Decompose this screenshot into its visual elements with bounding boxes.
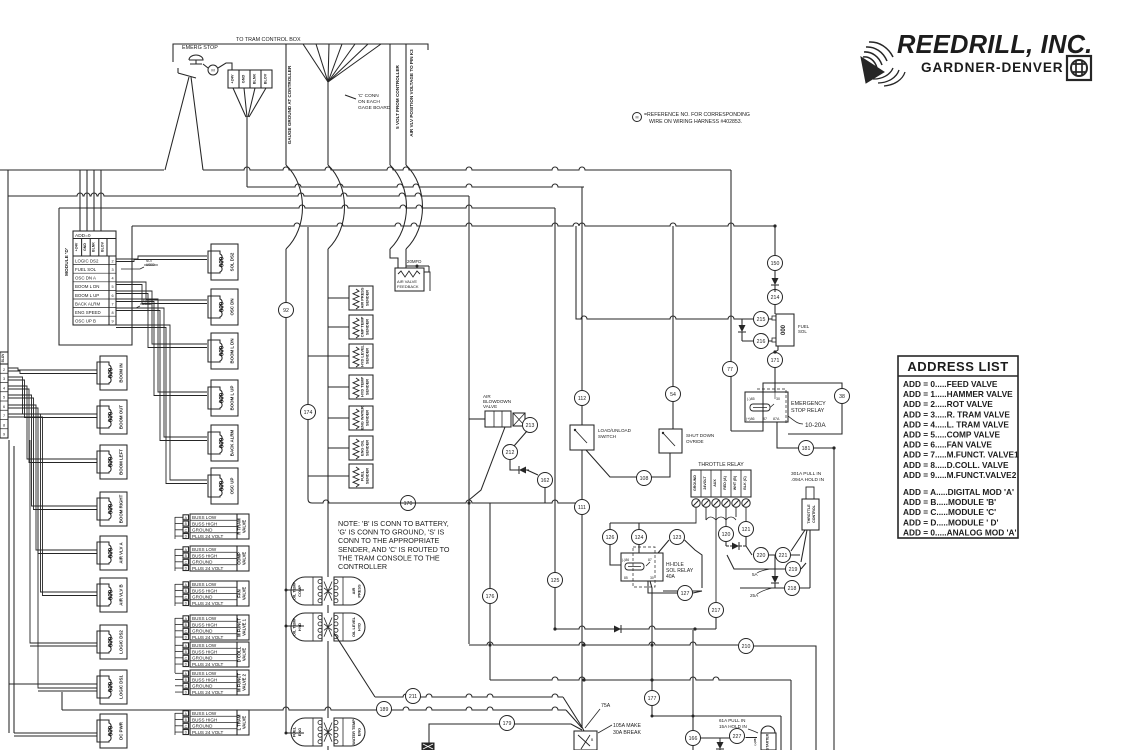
svg-text:ADD = D.....MODULE ' D': ADD = D.....MODULE ' D' (903, 517, 998, 527)
wire 127 (648, 581, 702, 593)
wire gauge to 211 line (334, 633, 375, 697)
svg-text:GND: GND (242, 75, 246, 84)
svg-text:OSC UP B: OSC UP B (75, 319, 96, 324)
svg-text:54: 54 (670, 392, 676, 398)
svg-text:3: 3 (111, 268, 113, 272)
svg-text:174: 174 (304, 410, 313, 416)
bus H5 corner down at 775 (774, 226, 776, 256)
svg-text:FEEDBACK: FEEDBACK (397, 284, 419, 289)
terminal group D COLL VALVE (190, 642, 237, 667)
svg-text:RED (A): RED (A) (723, 475, 727, 489)
svg-text:38: 38 (839, 394, 845, 400)
svg-text:87A: 87A (773, 417, 780, 421)
circled 218 (785, 581, 800, 596)
wire 77 vertical (730, 230, 732, 431)
svg-text:213: 213 (526, 423, 535, 429)
bus y645 (469, 642, 738, 645)
svg-text:000: 000 (108, 547, 115, 558)
svg-text:ADD = 8.....D.COLL. VALVE: ADD = 8.....D.COLL. VALVE (903, 460, 1009, 470)
throttle relay wires down (610, 507, 746, 602)
svg-text:.094A HOLD IN: .094A HOLD IN (791, 477, 825, 483)
solenoid LOGIC DS2 (100, 625, 127, 659)
svg-text:BOOM L UP: BOOM L UP (75, 293, 99, 298)
svg-text:ADD = C.....MODULE 'C': ADD = C.....MODULE 'C' (903, 507, 996, 517)
svg-text:WATER TEMP: WATER TEMP (351, 719, 356, 745)
circled 210 (739, 639, 754, 654)
svg-text:+24V: +24V (75, 242, 79, 251)
svg-text:BOOM L UP: BOOM L UP (230, 386, 235, 411)
svg-text:BUSS LOW: BUSS LOW (192, 671, 217, 676)
wire 218 line 25A (740, 585, 810, 588)
svg-text:176: 176 (486, 594, 495, 600)
svg-text:6: 6 (111, 294, 113, 298)
svg-text:SENDER: SENDER (365, 348, 370, 364)
svg-text:BUSS LOW: BUSS LOW (192, 616, 217, 621)
svg-text:BUSS HIGH: BUSS HIGH (192, 649, 217, 654)
svg-text:SHUT DOWN: SHUT DOWN (686, 433, 714, 438)
svg-text:PLUS 24 VOLT: PLUS 24 VOLT (192, 690, 224, 695)
svg-text:OIL TEMP: OIL TEMP (292, 617, 297, 636)
svg-text:EMERG STOP: EMERG STOP (182, 45, 218, 51)
starter solenoid wires (700, 737, 757, 740)
svg-text:20MFD: 20MFD (407, 259, 421, 264)
throttle control fan wires (791, 530, 810, 588)
throttle control actuator (802, 499, 819, 530)
terminal group L TRAM VALVE (190, 710, 237, 735)
arc bulge air vlv crossing (406, 165, 423, 249)
svg-text:111: 111 (578, 505, 586, 511)
circled 211 (406, 689, 421, 704)
svg-text:ADD = 5.....COMP VALVE: ADD = 5.....COMP VALVE (903, 430, 1001, 440)
svg-text:30A BREAK: 30A BREAK (613, 730, 642, 736)
svg-text:GROUND: GROUND (192, 724, 213, 729)
REEDRILL logo swoosh (863, 42, 893, 68)
circled 77 (723, 362, 738, 377)
svg-text:000: 000 (108, 681, 115, 692)
gage board fan wires (303, 44, 328, 82)
left edge vertical x8 from H1 to left module (7, 170, 9, 352)
svg-text:301A PULL IN: 301A PULL IN (791, 471, 822, 477)
svg-text:105A MAKE: 105A MAKE (613, 723, 642, 729)
junction dot 652-716 (651, 715, 654, 718)
bus H1 corner down at 731 (730, 170, 732, 230)
svg-text:ADD = 3.....R. TRAM VALVE: ADD = 3.....R. TRAM VALVE (903, 409, 1010, 419)
solenoid BOOM RIGHT (100, 492, 127, 526)
svg-text:108: 108 (640, 476, 649, 482)
wire fuel sol to 171 to relay (775, 346, 778, 392)
svg-text:SOL DS2: SOL DS2 (230, 252, 235, 271)
tram connector block +24V GND BLNK BLOV (228, 70, 272, 88)
emergency stop relay dashed (757, 389, 786, 424)
svg-text:GROUND: GROUND (192, 528, 213, 533)
svg-text:000: 000 (108, 636, 115, 647)
wire right edge starter box (790, 680, 792, 750)
wire 87A to 181 (777, 422, 798, 448)
address list box (898, 356, 1018, 538)
svg-text:VALVE: VALVE (242, 587, 247, 601)
svg-text:STOP RELAY: STOP RELAY (791, 408, 825, 414)
terminal group R TRAM VALVE (190, 514, 237, 539)
svg-text:BOOM LEFT: BOOM LEFT (119, 449, 124, 475)
svg-text:000: 000 (219, 480, 226, 491)
circled 215 (754, 312, 769, 327)
gauge centre wire (327, 605, 329, 750)
solenoid LOGIC DS1 (100, 670, 127, 704)
svg-text:2: 2 (111, 259, 113, 263)
diode on y629 (612, 625, 624, 633)
svg-text:SENDER: SENDER (365, 468, 370, 484)
svg-text:SENDER: SENDER (365, 319, 370, 335)
svg-text:BUSS HIGH: BUSS HIGH (192, 521, 217, 526)
sender HYD TEMP (349, 375, 373, 399)
wire gauge ground vertical (285, 44, 287, 165)
svg-text:7: 7 (3, 414, 5, 418)
throttle relay terminal strip (691, 470, 751, 497)
svg-text:THROTTLE RELAY: THROTTLE RELAY (698, 462, 744, 468)
wire connector node down (246, 117, 248, 187)
wire air vlv position vertical (405, 44, 407, 165)
svg-text:77: 77 (727, 367, 733, 373)
emergency stop mushroom button (189, 55, 203, 64)
wire 213 to 212 (514, 431, 527, 446)
svg-text:DC PWR: DC PWR (119, 721, 124, 740)
breaker 105A (574, 731, 597, 750)
svg-text:150: 150 (771, 261, 780, 267)
wire 219 line 5A (727, 555, 806, 569)
svg-text:PLUS 24 VOLT: PLUS 24 VOLT (192, 601, 224, 606)
arc bulge gauge ground crossing (286, 165, 303, 249)
circled 216 (754, 334, 769, 349)
svg-text:SOL: SOL (798, 329, 807, 334)
svg-text:+24V: +24V (231, 74, 235, 83)
wire 5 volt vertical (389, 44, 391, 165)
reference note circle (633, 113, 642, 122)
svg-text:166: 166 (689, 736, 698, 742)
solenoid BOOM LEFT (100, 445, 127, 479)
circled 121 (739, 522, 754, 537)
air blowdown wires (469, 418, 485, 420)
solenoid BACK ALRM (211, 425, 238, 461)
bus y716 starter top (652, 716, 781, 750)
wire gage fan down (327, 82, 329, 165)
wire logic ds1 feed (9, 683, 97, 685)
module D table (73, 231, 116, 325)
svg-text:ADD=0: ADD=0 (75, 233, 91, 239)
svg-text:GROUND: GROUND (693, 475, 697, 491)
bus 179 line (429, 724, 500, 744)
solenoid AIR VLV B (100, 578, 127, 612)
svg-text:75A: 75A (601, 703, 611, 709)
circled 54 (666, 387, 681, 402)
svg-text:BUSS HIGH: BUSS HIGH (192, 553, 217, 558)
solenoid AIR VLV A (100, 536, 127, 570)
junction dots lower buses (582, 643, 585, 646)
circled 176 (483, 589, 498, 604)
svg-text:VALVE: VALVE (242, 552, 247, 566)
circled 162 (538, 473, 553, 488)
svg-text:BOOM L DN: BOOM L DN (75, 284, 99, 289)
svg-text:HYD: HYD (297, 623, 302, 631)
svg-text:5 VOLT FROM CONTROLLER: 5 VOLT FROM CONTROLLER (395, 64, 400, 128)
circled 219 (786, 562, 801, 577)
svg-text:CONTROL: CONTROL (812, 504, 816, 523)
svg-text:000: 000 (108, 411, 115, 422)
svg-text:BOOM RIGHT: BOOM RIGHT (119, 494, 124, 523)
wire 214 to fuel sol (774, 288, 776, 292)
module D supply wires (79, 170, 81, 231)
diode 25A (771, 574, 779, 586)
svg-text:BLNK: BLNK (253, 73, 257, 84)
module D not-used arrows (121, 265, 158, 269)
svg-text:OVRIDE: OVRIDE (686, 439, 704, 444)
bus H4 y208 module top edge (59, 205, 555, 208)
wire 108 to shutdown (651, 453, 670, 477)
gauge pair ENG FUEL / WATER TEMP ENG (291, 718, 322, 746)
circled 127 (678, 586, 693, 601)
wire x576 fuel sol feed (576, 226, 753, 319)
svg-text:30: 30 (776, 397, 780, 401)
left bus wires (8, 440, 10, 733)
module D output wires to solenoids (116, 256, 207, 259)
svg-text:OIL LEVEL: OIL LEVEL (351, 616, 356, 637)
bus H2 y187 (247, 184, 584, 187)
svg-text:227: 227 (733, 734, 742, 740)
circled 120 (719, 527, 734, 542)
svg-text:BUSS LOW: BUSS LOW (192, 643, 217, 648)
wire 210 to right (754, 646, 816, 750)
svg-text:7: 7 (111, 302, 113, 306)
svg-text:215: 215 (757, 317, 766, 323)
arc bulge gage fan crossing (328, 165, 345, 249)
svg-text:189: 189 (380, 707, 389, 713)
capacitor 20MFD (406, 266, 429, 272)
svg-text:VALVE: VALVE (242, 520, 247, 534)
svg-text:9: 9 (3, 433, 5, 437)
solenoid SOL DS2 (211, 244, 238, 280)
svg-text:ADD = 1.....HAMMER VALVE: ADD = 1.....HAMMER VALVE (903, 389, 1013, 399)
svg-text:PLUS 24 VOLT: PLUS 24 VOLT (192, 662, 224, 667)
svg-text:VALVE: VALVE (483, 404, 497, 409)
wire x286 gauge ground down through 92 (285, 249, 287, 733)
svg-text:OSC DN: OSC DN (230, 298, 235, 315)
svg-text:GAGE BOARD: GAGE BOARD (358, 105, 391, 111)
svg-text:ENG: ENG (357, 728, 362, 736)
throttle relay screws (692, 499, 700, 507)
buss interconnect stubs (174, 517, 176, 735)
svg-text:BACK ALRM: BACK ALRM (230, 429, 235, 456)
svg-text:BUSS HIGH: BUSS HIGH (192, 717, 217, 722)
wire hi-idle to 177 vertical (650, 581, 652, 680)
left module connector (edge) (0, 352, 8, 364)
svg-text:(+)86: (+)86 (753, 738, 757, 745)
wire 5volt into feedback box (390, 249, 398, 268)
svg-text:GROUND: GROUND (192, 684, 213, 689)
svg-text:000: 000 (781, 324, 787, 335)
svg-text:LOGIC DS1: LOGIC DS1 (119, 675, 124, 699)
svg-text:GND: GND (83, 243, 87, 251)
svg-text:24VOLT: 24VOLT (703, 476, 707, 490)
wire 123 loop (658, 540, 702, 591)
diode near 162 (517, 466, 529, 474)
hi-idle sol relay box (621, 553, 663, 581)
starter 61A leader (748, 729, 758, 733)
svg-text:4: 4 (111, 277, 113, 281)
svg-text:BUSS LOW: BUSS LOW (192, 582, 217, 587)
solenoid DC PWR (100, 714, 127, 748)
svg-text:AIR: AIR (351, 587, 356, 594)
svg-text:TO TRAM CONTROL BOX: TO TRAM CONTROL BOX (236, 37, 301, 43)
svg-text:5: 5 (111, 285, 113, 289)
svg-text:000: 000 (108, 456, 115, 467)
svg-text:LOGIC DS2: LOGIC DS2 (75, 258, 99, 263)
svg-text:123: 123 (673, 535, 682, 541)
circled 214 (768, 290, 783, 305)
svg-text:BOOM IN: BOOM IN (119, 363, 124, 382)
svg-text:000: 000 (108, 503, 115, 514)
svg-text:VALVE 2: VALVE 2 (242, 673, 247, 691)
svg-text:VALVE 1: VALVE 1 (242, 618, 247, 636)
svg-text:PRESS: PRESS (357, 584, 362, 598)
sender HYD LEVEL (349, 344, 373, 368)
wire x673 down through 54 (672, 226, 674, 429)
wire fan from connector to node (233, 88, 266, 117)
svg-text:126: 126 (606, 535, 615, 541)
svg-text:ON EACH: ON EACH (358, 99, 380, 105)
svg-text:LOAD/UNLOAD: LOAD/UNLOAD (598, 428, 632, 433)
fuel sol diode branch (742, 319, 746, 341)
svg-text:000: 000 (219, 256, 226, 267)
svg-text:BLOV: BLOV (100, 241, 104, 252)
svg-text:BUSS HIGH: BUSS HIGH (192, 622, 217, 627)
tram control box bracket (173, 44, 428, 50)
svg-text:ADD = 2.....ROT VALVE: ADD = 2.....ROT VALVE (903, 399, 993, 409)
wire emerg stop to connector (203, 63, 232, 70)
svg-text:5: 5 (3, 396, 5, 400)
svg-text:USED: USED (146, 263, 156, 267)
gauge pair feeds from x286 (286, 590, 304, 733)
gardner denver square emblem (1067, 56, 1091, 80)
svg-text:ADDRESS LIST: ADDRESS LIST (907, 359, 1008, 374)
diode throttle a (730, 542, 742, 550)
svg-text:BLNK: BLNK (92, 242, 96, 252)
wire 220-221 (768, 555, 800, 575)
svg-text:MODULE 'D': MODULE 'D' (64, 248, 70, 276)
svg-text:BOOM L DN: BOOM L DN (230, 338, 235, 363)
svg-text:000: 000 (219, 301, 226, 312)
svg-text:217: 217 (712, 608, 721, 614)
node M circle (208, 65, 218, 75)
circled 171 (768, 353, 783, 368)
svg-text:HYD: HYD (357, 623, 362, 631)
svg-text:ADD = 7.....M.FUNCT. VALVE1: ADD = 7.....M.FUNCT. VALVE1 (903, 450, 1019, 460)
svg-text:(+)86: (+)86 (746, 417, 755, 421)
svg-text:BACK ALRM: BACK ALRM (75, 301, 100, 306)
svg-text:BUSS LOW: BUSS LOW (192, 515, 217, 520)
circled 108 (637, 471, 652, 486)
svg-text:PLUS 24 VOLT: PLUS 24 VOLT (192, 635, 224, 640)
svg-text:OSC UP: OSC UP (230, 478, 235, 495)
gauge pair HYD OIL TEMP / OIL LEVEL HYD (291, 613, 322, 641)
svg-text:112: 112 (578, 396, 586, 402)
svg-text:BUSS HIGH: BUSS HIGH (192, 677, 217, 682)
svg-text:8: 8 (111, 311, 113, 315)
svg-text:PLUS 24 VOLT: PLUS 24 VOLT (192, 534, 224, 539)
svg-text:2: 2 (3, 368, 5, 372)
svg-text:OSC DN A: OSC DN A (75, 276, 96, 281)
bus H3 y196 (8, 193, 469, 196)
bus H2 corner down at 582 (581, 187, 583, 425)
svg-text:FUEL SOL: FUEL SOL (75, 267, 97, 272)
svg-text:211: 211 (409, 694, 417, 700)
circled 213 (523, 418, 538, 433)
solenoid OSC UP (211, 468, 238, 504)
svg-text:SENDER: SENDER (365, 440, 370, 456)
circled 177 (645, 691, 660, 706)
circled 221 (776, 548, 791, 563)
circled 126 (603, 530, 618, 545)
svg-text:OIL TEMP: OIL TEMP (292, 581, 297, 600)
svg-text:127: 127 (681, 591, 690, 597)
bus 189 line (62, 707, 566, 710)
solenoid BOOM OUT (100, 400, 127, 434)
svg-text:181: 181 (802, 446, 811, 452)
svg-text:PLUS 24 VOLT: PLUS 24 VOLT (192, 730, 224, 735)
svg-text:VALVE: VALVE (242, 716, 247, 730)
svg-text:SENDER: SENDER (365, 379, 370, 395)
svg-text:171: 171 (771, 358, 780, 364)
emergency stop relay outer loop (731, 383, 842, 434)
svg-text:BUSS LOW: BUSS LOW (192, 711, 217, 716)
wire x328 spine down to senders and gauges (327, 249, 329, 577)
svg-text:=REFERENCE NO. FOR CORRESPONDI: =REFERENCE NO. FOR CORRESPONDING (644, 112, 750, 118)
air valve feedback resistor (395, 268, 424, 291)
svg-text:WIRE ON WIRING HARNESS #402853: WIRE ON WIRING HARNESS #402853. (649, 119, 742, 125)
circled 181 (799, 441, 814, 456)
solenoid BOOM IN (100, 356, 127, 390)
svg-text:40A: 40A (666, 574, 676, 580)
circled 111 (575, 500, 590, 515)
svg-text:GROUND: GROUND (192, 656, 213, 661)
terminal group M FUNCT VALVE 2 (190, 670, 237, 695)
svg-text:179: 179 (503, 721, 512, 727)
svg-text:214: 214 (771, 295, 780, 301)
svg-text:AIR VLV A: AIR VLV A (119, 542, 124, 564)
terminal group M FUNCT VALVE 1 (190, 615, 237, 640)
svg-text:4: 4 (3, 386, 5, 390)
svg-text:EMERGENCY: EMERGENCY (791, 401, 826, 407)
svg-text:GROUND: GROUND (192, 629, 213, 634)
svg-text:'C' CONN: 'C' CONN (358, 93, 379, 99)
svg-text:BLOV: BLOV (264, 73, 268, 84)
bus H5 y226 (132, 223, 775, 226)
svg-text:GARDNER-DENVER: GARDNER-DENVER (921, 60, 1064, 75)
bus y503 wire 170 (312, 500, 582, 503)
wire 212 to diode to 162 (510, 459, 538, 475)
wire 181 to right vertical (814, 448, 834, 750)
svg-text:ADD = 0.....FEED VALVE: ADD = 0.....FEED VALVE (903, 379, 998, 389)
svg-text:6: 6 (3, 405, 5, 409)
wire emerg stop triangle legs (165, 77, 203, 170)
svg-text:210: 210 (742, 644, 751, 650)
svg-text:M: M (211, 67, 214, 72)
svg-text:USED: USED (142, 302, 152, 306)
starter pull-in arc (761, 726, 775, 733)
svg-text:GROUND: GROUND (192, 595, 213, 600)
wire x582 to breaker (582, 450, 584, 731)
sender AIR PRESS (349, 286, 373, 310)
svg-text:CONTROLLER: CONTROLLER (338, 562, 387, 571)
svg-text:STARTER: STARTER (766, 733, 770, 750)
